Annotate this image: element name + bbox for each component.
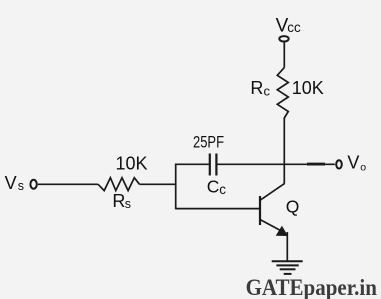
svg-text:s: s — [18, 179, 24, 193]
svg-text:c: c — [219, 182, 226, 197]
svg-text:C: C — [207, 176, 220, 196]
svg-text:c: c — [264, 84, 271, 99]
svg-text:Q: Q — [286, 196, 300, 216]
svg-text:25PF: 25PF — [193, 133, 224, 152]
svg-text:V: V — [347, 153, 359, 173]
svg-text:o: o — [360, 161, 366, 173]
svg-text:s: s — [125, 197, 131, 211]
svg-text:GATEpaper.in: GATEpaper.in — [246, 275, 377, 299]
svg-text:V: V — [5, 173, 17, 193]
svg-text:R: R — [250, 78, 263, 98]
svg-text:10K: 10K — [292, 78, 324, 98]
svg-text:cc: cc — [287, 20, 301, 35]
svg-text:R: R — [112, 191, 125, 211]
svg-text:10K: 10K — [116, 154, 148, 174]
